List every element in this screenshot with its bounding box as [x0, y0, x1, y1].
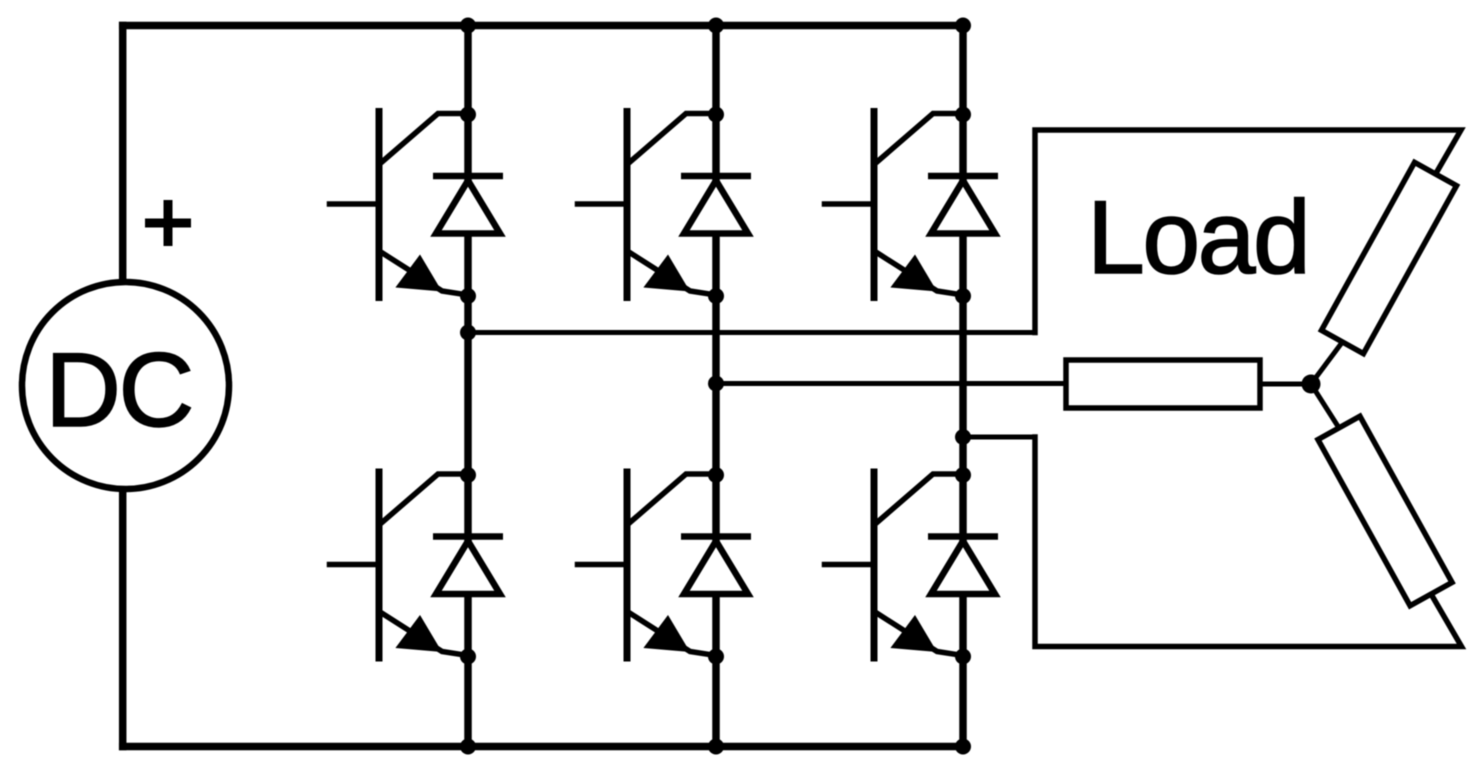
- resistor R3 (phase C, diagonal): [1318, 416, 1452, 605]
- wire: left wire from + rail down to DC source: [119, 26, 127, 286]
- node: Q3 emitter junction: [955, 288, 971, 304]
- transistor Q1 collector lead: [383, 114, 469, 162]
- diode D4 triangle: [436, 541, 500, 594]
- transistor Q4 (IGBT) body bar: [376, 472, 383, 658]
- node: Q2 collector junction: [708, 107, 724, 123]
- transistor Q3 (IGBT) body bar: [871, 112, 878, 298]
- node: Q3 collector junction: [955, 107, 971, 123]
- node: leg 3 top rail junction: [955, 18, 971, 34]
- transistor Q4 collector lead: [383, 474, 469, 522]
- transistor Q3 gate lead: [825, 201, 875, 207]
- transistor Q3 emitter arrowhead: [890, 255, 937, 292]
- wire: phase B from leg 2 to load middle: [716, 381, 1066, 386]
- transistor Q4 gate lead: [330, 562, 380, 568]
- transistor Q2 emitter arrowhead: [643, 255, 690, 292]
- wire: phase C from leg 3 to load left: [963, 435, 1035, 440]
- diode D3 cathode bar: [928, 173, 998, 180]
- node: leg 1 bottom rail junction: [460, 739, 476, 755]
- wire: star point to R1: [1311, 342, 1342, 384]
- node: Q5 collector junction: [708, 467, 724, 483]
- transistor Q6 gate lead: [825, 562, 875, 568]
- node: Q1 collector junction: [460, 107, 476, 123]
- diode D2 triangle: [684, 181, 748, 234]
- transistor Q5 (IGBT) body bar: [624, 472, 631, 658]
- transistor Q2 emitter lead: [628, 252, 716, 296]
- wire: inverter leg 3 vertical: [959, 26, 967, 747]
- resistor R1 (phase A, diagonal): [1321, 162, 1456, 353]
- node: leg 3 bottom rail junction: [955, 739, 971, 755]
- diode D5 cathode bar: [681, 533, 751, 540]
- svg-text:Load: Load: [1087, 180, 1308, 296]
- wire: R2 to star point: [1260, 382, 1304, 387]
- transistor Q2 (IGBT) body bar: [624, 112, 631, 298]
- transistor Q6 emitter lead: [875, 612, 963, 656]
- node: Q2 emitter junction: [708, 288, 724, 304]
- node: leg 2 top rail junction: [708, 18, 724, 34]
- node: Q6 collector junction: [955, 467, 971, 483]
- transistor Q4 emitter lead: [380, 612, 468, 656]
- diode D4 cathode bar: [433, 533, 503, 540]
- wire: load outline top (phase A continues): [1035, 130, 1461, 333]
- wire: bottom DC- rail: [123, 743, 963, 751]
- transistor Q5 emitter lead: [628, 612, 716, 656]
- transistor Q4 emitter arrowhead: [395, 615, 442, 652]
- transistor Q6 emitter arrowhead: [890, 615, 937, 652]
- diode D6 cathode bar: [928, 533, 998, 540]
- diode D5 triangle: [684, 541, 748, 594]
- wire: star point to R3: [1311, 384, 1338, 427]
- node: phase C tap on leg 3: [955, 429, 971, 445]
- transistor Q6 (IGBT) body bar: [871, 472, 878, 658]
- wire: top DC+ rail: [123, 22, 963, 30]
- node: leg 1 top rail junction: [460, 18, 476, 34]
- diode D2 cathode bar: [681, 173, 751, 180]
- transistor Q1 gate lead: [330, 201, 380, 207]
- node: load star point: [1302, 375, 1321, 394]
- transistor Q5 gate lead: [578, 562, 628, 568]
- wire: inverter leg 1 vertical: [464, 26, 472, 747]
- node: phase B tap on leg 2: [708, 376, 724, 392]
- transistor Q5 emitter arrowhead: [643, 615, 690, 652]
- node: Q1 emitter junction: [460, 288, 476, 304]
- diode D6 triangle: [931, 541, 995, 594]
- transistor Q1 (IGBT) body bar: [376, 112, 383, 298]
- wire: load outline bottom (phase C continues): [1035, 437, 1462, 647]
- transistor Q1 emitter lead: [380, 252, 468, 296]
- transistor Q6 collector lead: [878, 474, 964, 522]
- wire: inverter leg 2 vertical: [712, 26, 720, 747]
- node: leg 2 bottom rail junction: [708, 739, 724, 755]
- wire: left wire from DC source down to - rail: [119, 486, 127, 747]
- transistor Q3 emitter lead: [875, 252, 963, 296]
- node: Q5 emitter junction: [708, 649, 724, 665]
- transistor Q2 collector lead: [631, 114, 717, 162]
- node: Q6 emitter junction: [955, 649, 971, 665]
- transistor Q2 gate lead: [578, 201, 628, 207]
- transistor Q3 collector lead: [878, 114, 964, 162]
- node: Q4 emitter junction: [460, 649, 476, 665]
- diode D1 triangle: [436, 181, 500, 234]
- node: Q4 collector junction: [460, 467, 476, 483]
- wire: phase A from leg 1 to load left: [468, 330, 1035, 335]
- svg-text:DC: DC: [45, 332, 192, 449]
- node: phase A tap on leg 1: [460, 325, 476, 341]
- plus polarity symbol: [145, 219, 191, 228]
- resistor R2 (phase B, horizontal): [1066, 360, 1260, 408]
- transistor Q1 emitter arrowhead: [395, 255, 442, 292]
- diode D3 triangle: [931, 181, 995, 234]
- DC source V1 (circle): [22, 282, 229, 489]
- diode D1 cathode bar: [433, 173, 503, 180]
- transistor Q5 collector lead: [631, 474, 717, 522]
